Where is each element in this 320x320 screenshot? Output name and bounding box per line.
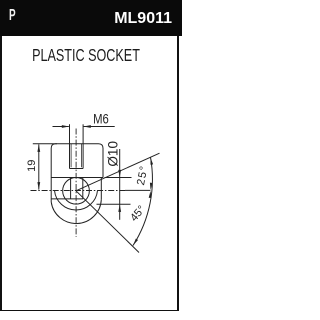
svg-text:Ø10: Ø10	[106, 141, 121, 167]
svg-text:25°: 25°	[135, 164, 151, 186]
svg-text:M6: M6	[93, 112, 109, 127]
svg-text:19: 19	[26, 160, 38, 172]
